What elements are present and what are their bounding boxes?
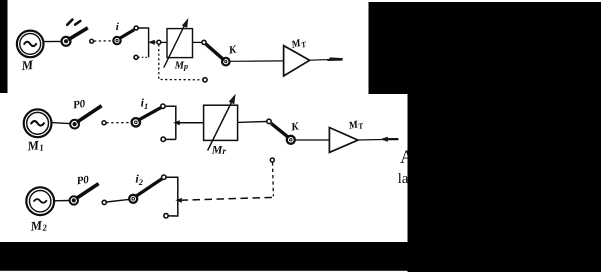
arrow through box xyxy=(208,101,232,150)
svg-text:i2: i2 xyxy=(135,172,143,188)
switch i1 pivot xyxy=(132,118,140,126)
long dashed wire to row2 xyxy=(181,197,274,200)
top right black region xyxy=(369,2,601,94)
svg-text:MT: MT xyxy=(347,118,365,133)
junction arrow xyxy=(173,120,180,125)
terminal bottom xyxy=(164,214,168,218)
wire xyxy=(161,41,167,43)
svg-text:Mp: Mp xyxy=(174,61,188,72)
terminal top xyxy=(134,26,138,30)
svg-text:K: K xyxy=(289,120,300,133)
terminal top xyxy=(162,175,166,179)
terminal bottom xyxy=(161,137,165,141)
switch K pivot row2 xyxy=(287,136,295,144)
amplifier Mt row1 xyxy=(284,46,310,76)
label P0 row1 (smudged) xyxy=(67,20,80,25)
switch blade i2 xyxy=(135,179,162,197)
node circle xyxy=(202,40,206,44)
wire xyxy=(166,177,178,216)
node circle xyxy=(157,40,161,44)
terminal bottom xyxy=(134,55,138,59)
wire to box xyxy=(178,122,204,124)
arrow through box xyxy=(164,26,185,68)
connector P0 (row2) xyxy=(70,120,79,129)
switch blade i xyxy=(119,30,134,39)
switch blade i1 xyxy=(138,108,161,121)
svg-text:Mr: Mr xyxy=(211,143,227,157)
generator M2 xyxy=(26,187,54,215)
wire dashed xyxy=(106,122,131,124)
wire xyxy=(165,106,176,139)
switch K pivot row1 xyxy=(222,58,230,66)
switch i pivot xyxy=(113,37,120,44)
left black bar xyxy=(0,0,8,93)
switch blade K row1 xyxy=(206,44,224,60)
wire xyxy=(54,200,70,202)
output wire + arrow blob xyxy=(310,59,343,60)
connector P0 (row3) xyxy=(70,196,78,204)
regulator box Mp xyxy=(167,29,193,58)
connector P0 (row1) xyxy=(62,37,71,46)
wire xyxy=(295,139,330,141)
output wire + left arrow xyxy=(358,138,399,141)
switch i2 pivot xyxy=(129,195,137,203)
dashed vertical wire xyxy=(272,162,275,196)
wire dotted xyxy=(138,56,148,58)
svg-text:M2: M2 xyxy=(29,217,48,234)
switch blade P0 row1 xyxy=(68,28,88,40)
junction arrow to node xyxy=(148,40,155,45)
node circle xyxy=(90,39,94,43)
wire xyxy=(168,215,178,217)
regulator box Mr xyxy=(204,105,238,140)
svg-text:K: K xyxy=(227,43,238,56)
wire xyxy=(238,121,267,124)
switch blade P0 row2 xyxy=(77,106,102,122)
svg-text:P0: P0 xyxy=(76,174,90,188)
generator M1 xyxy=(24,109,52,137)
bottom black strip xyxy=(0,242,601,271)
wire xyxy=(107,199,130,202)
wire xyxy=(43,40,62,42)
wire xyxy=(193,41,202,43)
wire xyxy=(51,123,70,124)
svg-text:i: i xyxy=(116,21,120,33)
dashed rail below Mp xyxy=(159,44,203,79)
svg-text:MT: MT xyxy=(289,37,308,53)
wire dashed xyxy=(94,40,113,42)
amplifier Mt row2 xyxy=(329,128,358,153)
terminal top xyxy=(161,104,165,108)
wire xyxy=(165,138,175,140)
wire xyxy=(138,28,148,57)
node circle xyxy=(203,78,207,82)
switch blade P0 row3 xyxy=(76,184,99,199)
node circle xyxy=(102,121,106,125)
switch blade K row2 xyxy=(271,123,288,137)
svg-text:P0: P0 xyxy=(72,98,86,112)
svg-text:i1: i1 xyxy=(141,96,149,112)
node circle xyxy=(267,119,271,123)
wire xyxy=(230,60,284,62)
generator M xyxy=(17,31,44,58)
node circle xyxy=(102,200,106,204)
svg-text:M: M xyxy=(20,57,34,73)
right black region xyxy=(408,94,601,272)
svg-text:la: la xyxy=(398,171,409,187)
junction arrow xyxy=(175,198,181,203)
svg-text:M1: M1 xyxy=(26,137,45,154)
node circle below K xyxy=(270,158,274,162)
